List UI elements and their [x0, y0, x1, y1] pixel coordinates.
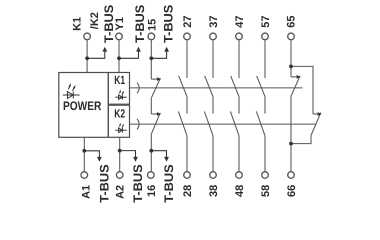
- svg-text:66: 66: [286, 185, 298, 197]
- arrowhead seat 65 row1: [297, 75, 301, 79]
- contact 65 seat row1: [291, 76, 297, 78]
- wire mid 57: [264, 97, 266, 114]
- contact 15 seat row1: [151, 78, 157, 80]
- terminal 37: [210, 33, 217, 40]
- wire 66 down: [290, 144, 292, 172]
- wire mid 47: [238, 97, 240, 114]
- svg-text:K2: K2: [114, 107, 125, 121]
- coil arc K1: [137, 83, 139, 94]
- wire 15 down: [150, 40, 152, 79]
- wire mid 27: [186, 97, 188, 114]
- branch K1 T-BUS: [87, 51, 105, 58]
- branch A2 T-BUS: [120, 151, 136, 158]
- relay box K1: [108, 73, 129, 105]
- node 16/T-BUS: [149, 149, 153, 153]
- node A1/T-BUS: [82, 149, 86, 153]
- wire 57 down: [264, 40, 266, 78]
- node Y1/T-BUS: [117, 56, 121, 60]
- svg-text:POWER: POWER: [63, 99, 101, 113]
- arrowhead seat 65 row2: [318, 112, 322, 116]
- arrowhead 15 T-BUS: [164, 47, 169, 52]
- svg-text:58: 58: [260, 185, 272, 197]
- wire 66 blade return: [291, 136, 311, 144]
- node A2/T-BUS: [118, 149, 122, 153]
- svg-text:K1: K1: [114, 73, 125, 87]
- LED K1: [115, 90, 127, 100]
- svg-text:K1: K1: [72, 17, 84, 31]
- wire 38 down: [212, 136, 214, 172]
- contact 15 blade row1: [152, 78, 161, 97]
- terminal A2: [116, 172, 123, 179]
- node 15/T-BUS: [149, 56, 153, 60]
- svg-text:/K2: /K2: [89, 12, 101, 29]
- wire 65 bypass: [291, 66, 313, 114]
- relay box K2: [108, 105, 129, 137]
- svg-text:A2: A2: [115, 185, 127, 199]
- node 66 branch: [289, 142, 293, 146]
- arrowhead A1 T-BUS: [97, 157, 102, 162]
- svg-text:T-BUS: T-BUS: [133, 5, 147, 43]
- svg-text:57: 57: [260, 15, 272, 27]
- wire Y1 to K1 box: [118, 40, 120, 73]
- bottom labels: [80, 185, 298, 199]
- contact 15 seat row2: [151, 113, 157, 115]
- wire 47 down: [238, 40, 240, 78]
- contact blade 27 row1: [179, 76, 187, 97]
- svg-text:T-BUS: T-BUS: [162, 5, 176, 43]
- seat arrowheads: [157, 75, 322, 116]
- POWER box: [59, 73, 109, 138]
- terminal 65: [288, 33, 295, 40]
- terminal 15: [148, 33, 155, 40]
- contact 65 blade row1: [291, 76, 300, 96]
- terminal Y1: [116, 33, 123, 40]
- contact blade 57 row2: [256, 111, 265, 135]
- terminal 66: [288, 172, 295, 179]
- svg-text:48: 48: [234, 185, 246, 197]
- branch Y1 T-BUS: [119, 51, 139, 58]
- svg-text:27: 27: [182, 15, 194, 27]
- svg-text:T-BUS: T-BUS: [97, 164, 111, 202]
- terminal 47: [236, 33, 243, 40]
- svg-text:28: 28: [182, 185, 194, 197]
- arrowhead seat 15 row2: [157, 112, 161, 116]
- wire K1 to POWER: [86, 40, 88, 73]
- wire 28 down: [186, 136, 188, 172]
- wire 16 down: [150, 134, 152, 172]
- arrowhead K1 T-BUS: [102, 47, 107, 52]
- LED K2: [115, 123, 127, 133]
- terminal 28: [184, 172, 191, 179]
- wire 48 down: [238, 136, 240, 172]
- wire 27 down: [186, 40, 188, 78]
- contact 15 blade row2: [152, 113, 161, 134]
- branch A1 T-BUS: [84, 151, 99, 158]
- wire A1 from POWER: [83, 137, 85, 171]
- svg-text:T-BUS: T-BUS: [102, 5, 116, 43]
- terminal 38: [210, 172, 217, 179]
- wire 37 down: [212, 40, 214, 78]
- svg-text:A1: A1: [80, 185, 92, 199]
- link row K1: [130, 87, 303, 89]
- terminal 58: [262, 172, 269, 179]
- wire 58 down: [264, 136, 266, 172]
- contact 65 seat row2: [313, 113, 318, 115]
- wire mid 65: [290, 96, 292, 144]
- top labels: [72, 12, 298, 31]
- coil arc K2: [137, 119, 139, 130]
- terminal 48: [236, 172, 243, 179]
- node K1/T-BUS: [85, 56, 89, 60]
- arrowhead A2 T-BUS: [133, 157, 138, 162]
- contacts row 1: [151, 76, 320, 136]
- contact blade 27 row2: [178, 111, 187, 135]
- junction dots: [82, 56, 293, 152]
- branch 15 T-BUS: [151, 51, 166, 58]
- LED POWER: [63, 83, 80, 99]
- contact blade 57 row1: [257, 76, 265, 97]
- branch 16 T-BUS: [151, 151, 166, 158]
- link row K2: [130, 123, 317, 125]
- contact 65 blade row2: [311, 113, 321, 136]
- svg-text:37: 37: [208, 15, 220, 27]
- terminal 27: [184, 33, 191, 40]
- contact blade 47 row1: [231, 76, 239, 97]
- arrowhead Y1 T-BUS: [136, 47, 141, 52]
- wire mid 15-16: [150, 97, 152, 114]
- svg-text:T-BUS: T-BUS: [131, 164, 145, 202]
- contact blade 37 row2: [204, 111, 213, 135]
- wire A2 from K2 box: [119, 137, 121, 171]
- terminal 16: [148, 172, 155, 179]
- terminal A1: [81, 172, 88, 179]
- node 65 branch: [289, 65, 293, 69]
- terminal 57: [262, 33, 269, 40]
- contact blade 47 row2: [230, 111, 239, 135]
- wire mid 37: [212, 97, 214, 114]
- svg-text:15: 15: [147, 19, 159, 31]
- terminal K1: [84, 33, 91, 40]
- wire 65 down: [290, 40, 292, 77]
- svg-text:T-BUS: T-BUS: [162, 164, 176, 202]
- svg-text:16: 16: [146, 185, 158, 197]
- arrowhead 16 T-BUS: [164, 157, 169, 162]
- svg-text:65: 65: [286, 15, 298, 27]
- T-BUS branch arrows: [84, 51, 166, 157]
- arrowhead seat 15 row1: [157, 77, 161, 81]
- svg-text:47: 47: [234, 15, 246, 27]
- svg-text:38: 38: [208, 185, 220, 197]
- terminal circles top: [81, 33, 294, 178]
- contact blade 37 row1: [205, 76, 213, 97]
